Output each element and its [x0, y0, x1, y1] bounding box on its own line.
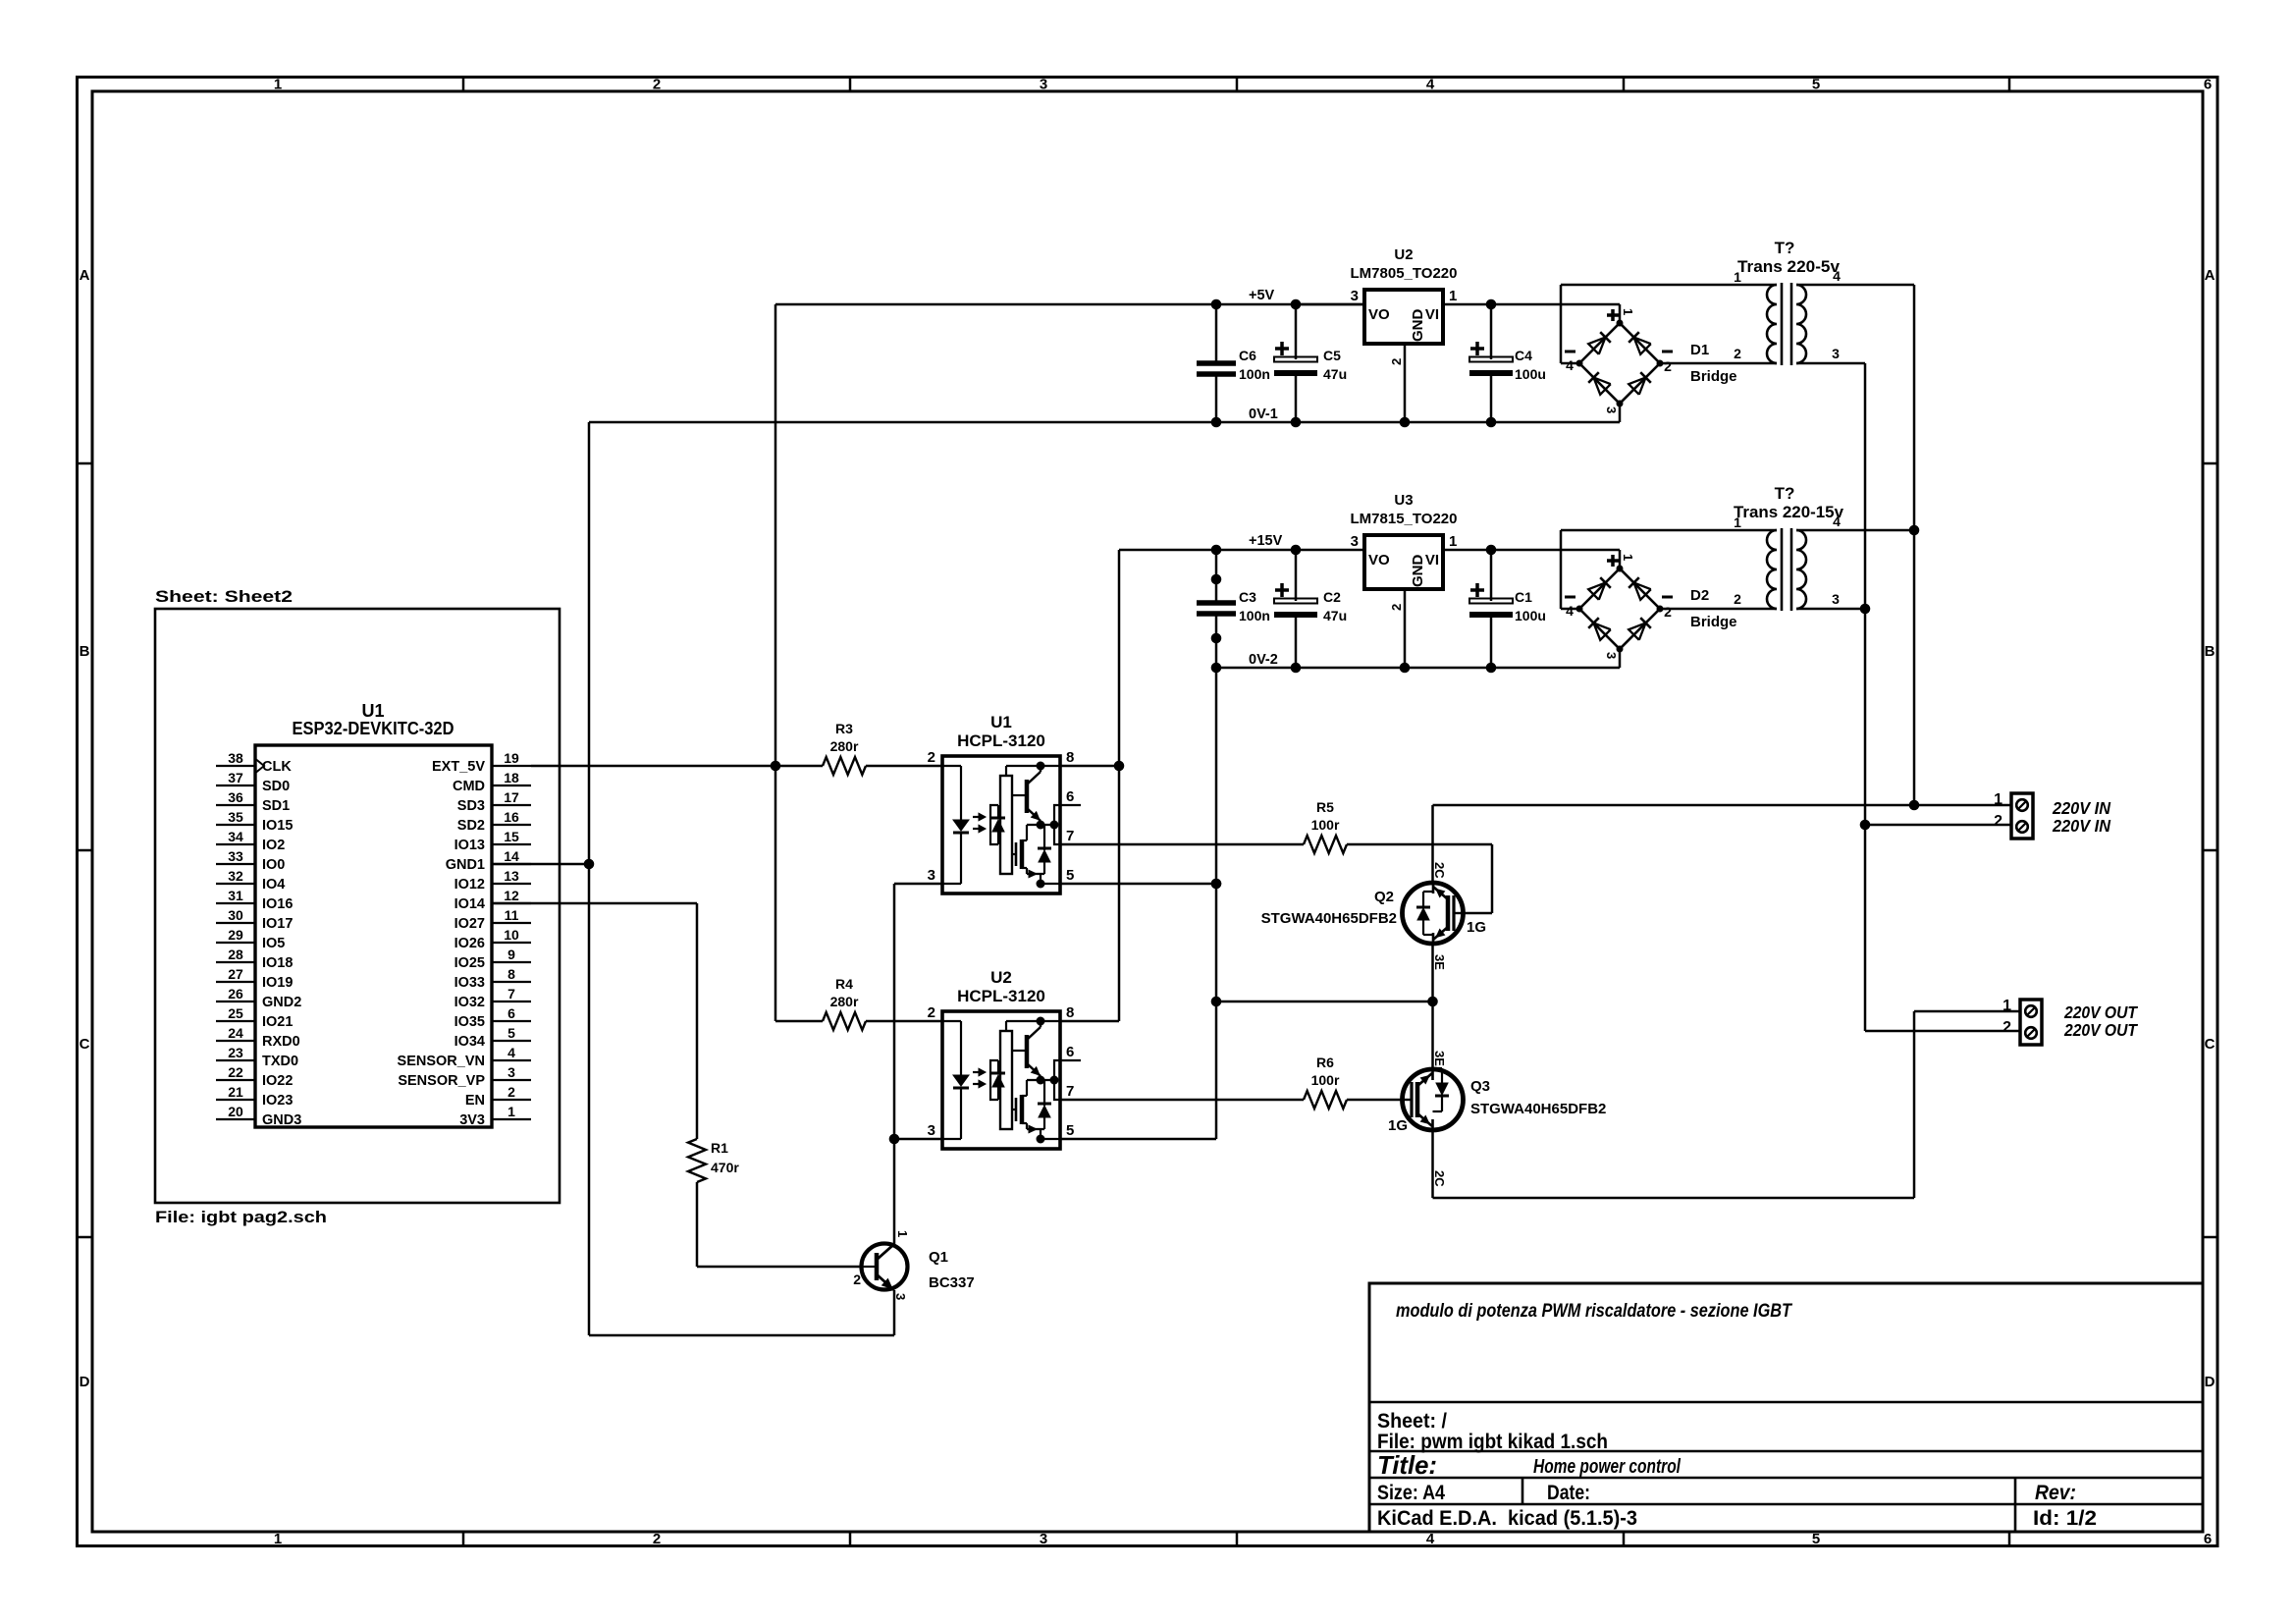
- transistor Q1 collector pin wire from HCPL pin3 net: [893, 884, 896, 1244]
- U1 internal mosfet channel: [1020, 839, 1025, 869]
- U1 ESP32 pin 24 RXD0: [216, 1040, 255, 1042]
- U1 ESP32 pin 7 IO32: [492, 1001, 531, 1002]
- svg-text:Q2: Q2: [1374, 889, 1394, 905]
- wire EXT_5V pin19 to junction: [531, 765, 775, 768]
- svg-text:5: 5: [1066, 1122, 1074, 1139]
- svg-text:31: 31: [228, 888, 243, 903]
- wire AC1 top run to T2 pin1: [1561, 529, 1777, 532]
- resistor R5 zigzag: [1304, 836, 1347, 853]
- svg-text:IO27: IO27: [454, 916, 485, 932]
- svg-text:IO35: IO35: [454, 1014, 485, 1030]
- svg-text:Trans 220-5v: Trans 220-5v: [1737, 257, 1841, 276]
- wire IO14 pin12 to R1 column: [492, 902, 697, 905]
- svg-text:IO18: IO18: [262, 955, 293, 971]
- node U1 pin5 tie: [1211, 879, 1222, 890]
- U1 internal diode: [1043, 836, 1045, 850]
- svg-text:D: D: [2205, 1374, 2216, 1390]
- wire D1 AC2 to T1 pin2: [1660, 362, 1777, 365]
- svg-text:IO19: IO19: [262, 975, 293, 991]
- U1 ESP32 pin 20 GND3: [216, 1118, 255, 1120]
- node T2 pin4 junction: [1909, 525, 1920, 536]
- svg-text:GND3: GND3: [262, 1112, 301, 1128]
- svg-text:6: 6: [507, 1005, 515, 1021]
- wire GND1 pin14 to vertical: [492, 863, 589, 866]
- U1 ESP32 pin 26 GND2: [216, 1001, 255, 1002]
- U1 photodiode bracket: [990, 805, 998, 844]
- diode bridge D1 corner dots: [1617, 320, 1624, 327]
- svg-text:13: 13: [504, 868, 519, 884]
- diode bridge D1 diode AC1-plus: [1588, 337, 1605, 353]
- U1 ESP32 pin 8 IO33: [492, 981, 531, 983]
- svg-text:SD3: SD3: [457, 798, 485, 814]
- U2 internal LED: [953, 1075, 969, 1086]
- node +5V C5 junction: [1291, 299, 1302, 310]
- svg-text:23: 23: [228, 1045, 243, 1060]
- node C3 top pin junction: [1211, 574, 1222, 585]
- border row ticks right: [2203, 462, 2217, 465]
- svg-text:3E: 3E: [1432, 1051, 1447, 1066]
- svg-text:28: 28: [228, 947, 243, 962]
- svg-text:37: 37: [228, 770, 243, 785]
- capacitor C6 top lead: [1215, 304, 1218, 363]
- transformer T1 secondary winding: [1796, 285, 1806, 363]
- node 220V IN pin1 junction: [1909, 800, 1920, 811]
- svg-text:4: 4: [1426, 1531, 1435, 1547]
- svg-text:IO21: IO21: [262, 1014, 293, 1030]
- U1 internal LED: [953, 820, 969, 831]
- transformer T2 secondary winding: [1796, 530, 1806, 609]
- U1 ESP32 pin 32 IO4: [216, 883, 255, 885]
- diode bridge D1 diode AC2-plus: [1633, 337, 1650, 353]
- svg-text:TXD0: TXD0: [262, 1054, 298, 1069]
- wire U1 opto pin 8 to +5V drop: [1060, 765, 1119, 768]
- svg-text:RXD0: RXD0: [262, 1034, 300, 1050]
- transformer T2 primary winding: [1767, 530, 1777, 609]
- svg-text:2: 2: [507, 1084, 515, 1100]
- U1 internal npn collector: [1027, 772, 1041, 785]
- svg-text:LM7805_TO220: LM7805_TO220: [1351, 265, 1458, 282]
- svg-text:IO17: IO17: [262, 916, 293, 932]
- svg-text:3: 3: [1604, 652, 1619, 659]
- U2 internal output link: [1027, 1079, 1054, 1081]
- svg-text:SD0: SD0: [262, 779, 290, 794]
- svg-text:+15V: +15V: [1249, 533, 1283, 549]
- U1 ESP32 pin 33 IO0: [216, 863, 255, 865]
- U1 ESP32 pin 22 IO22: [216, 1079, 255, 1081]
- U1 output bracket to pins 6/7: [1054, 805, 1060, 844]
- wire R3 to U1 opto pin 2: [866, 765, 942, 768]
- component U1 ESP32 body: [255, 745, 492, 1127]
- capacitor C6 plates: [1197, 360, 1236, 366]
- node U1 internal vcc junction: [1037, 762, 1045, 771]
- svg-text:17: 17: [504, 789, 519, 805]
- svg-text:STGWA40H65DFB2: STGWA40H65DFB2: [1470, 1101, 1606, 1117]
- transistor Q3 collector wire: [1431, 1130, 1434, 1198]
- svg-text:VI: VI: [1425, 306, 1439, 323]
- capacitor C4 top lead: [1490, 304, 1493, 359]
- svg-text:1: 1: [1994, 791, 2002, 808]
- U2 internal LED anode lead: [942, 1020, 961, 1022]
- svg-text:SD1: SD1: [262, 798, 290, 814]
- svg-text:12: 12: [504, 888, 519, 903]
- svg-text:Size: A4: Size: A4: [1377, 1482, 1445, 1504]
- svg-text:KiCad E.D.A. kicad (5.1.5)-3: KiCad E.D.A. kicad (5.1.5)-3: [1377, 1507, 1637, 1530]
- transistor Q1 collector diagonal: [877, 1244, 894, 1260]
- svg-text:1: 1: [507, 1104, 515, 1119]
- svg-text:470r: 470r: [711, 1160, 739, 1175]
- transistor Q2 gate lead: [1454, 912, 1464, 914]
- svg-text:ESP32-DEVKITC-32D: ESP32-DEVKITC-32D: [293, 719, 454, 738]
- node midpoint right junction: [1427, 997, 1438, 1007]
- svg-text:25: 25: [228, 1005, 243, 1021]
- wire C3 column through 0V-2: [1215, 668, 1218, 1001]
- wire bottom run riser to 220V OUT pin1: [1913, 1011, 1916, 1198]
- node U2 output bracket junction: [1050, 1076, 1059, 1085]
- svg-text:1: 1: [1621, 308, 1635, 315]
- U1 light arrows: [973, 816, 984, 818]
- svg-text:GND: GND: [1410, 555, 1426, 588]
- wire R4 to U2 opto pin 2: [866, 1020, 942, 1023]
- svg-text:C1: C1: [1515, 589, 1532, 605]
- svg-text:280r: 280r: [830, 994, 859, 1009]
- resistor R6 zigzag: [1304, 1091, 1347, 1109]
- wire neutral drop x=1900: [1864, 363, 1867, 1031]
- svg-text:2: 2: [928, 749, 935, 766]
- border column ticks bottom: [462, 1532, 465, 1546]
- svg-text:4: 4: [1833, 514, 1841, 529]
- transistor Q3 channel bar: [1415, 1082, 1420, 1117]
- svg-text:GND1: GND1: [446, 857, 485, 873]
- wire D1 AC1 loop: [1560, 285, 1563, 363]
- node C3 bottom pin junction: [1211, 633, 1222, 644]
- svg-text:Q3: Q3: [1470, 1078, 1490, 1095]
- diode bridge D2 diode minus-AC2: [1629, 623, 1645, 639]
- svg-text:11: 11: [505, 907, 519, 923]
- transistor Q2 collector diagonal: [1433, 887, 1448, 899]
- svg-text:B: B: [80, 643, 90, 660]
- capacitor C1 top lead: [1490, 550, 1493, 601]
- svg-text:IO12: IO12: [454, 877, 485, 893]
- svg-text:C: C: [80, 1036, 90, 1053]
- wire 0V-2 rail: [1216, 667, 1620, 670]
- svg-text:3: 3: [893, 1293, 908, 1300]
- wire AC feed drop x=1950: [1913, 285, 1916, 805]
- svg-text:C4: C4: [1515, 348, 1532, 363]
- diode bridge D1 diode minus-AC1: [1593, 377, 1610, 394]
- title block outline: [1369, 1283, 2203, 1532]
- U1 ESP32 pin 9 IO25: [492, 961, 531, 963]
- node 0V-1 C6 junction: [1211, 417, 1222, 428]
- svg-text:IO2: IO2: [262, 838, 285, 853]
- svg-text:2: 2: [1734, 346, 1741, 361]
- diode bridge D1 diode minus-AC2: [1629, 377, 1645, 394]
- svg-text:2: 2: [853, 1272, 861, 1287]
- capacitor C5 plates: [1274, 357, 1317, 362]
- resistor R4 zigzag: [823, 1012, 866, 1030]
- transistor Q3 internal diode: [1433, 1067, 1443, 1069]
- transistor Q1 base bar: [875, 1253, 880, 1280]
- U2 pin 6 stub: [1060, 1059, 1081, 1061]
- U1 ESP32 pin 6 IO35: [492, 1020, 531, 1022]
- wire T1 pin3 to neutral drop: [1796, 362, 1865, 365]
- svg-text:1: 1: [1449, 288, 1457, 304]
- U1 ESP32 pin 28 IO18: [216, 961, 255, 963]
- node 0V-1 C4 junction: [1486, 417, 1497, 428]
- svg-text:2C: 2C: [1432, 862, 1447, 879]
- capacitor C2 top lead: [1295, 550, 1298, 601]
- U1 photodiode: [997, 805, 999, 819]
- U1 HCPL-3120 body: [942, 756, 1060, 893]
- U1 ESP32 pin 30 IO17: [216, 922, 255, 924]
- svg-text:3: 3: [1040, 77, 1047, 93]
- regulator U3 GND pin wire: [1404, 589, 1407, 668]
- svg-text:U1: U1: [361, 701, 384, 721]
- svg-text:LM7815_TO220: LM7815_TO220: [1351, 511, 1458, 527]
- svg-text:2: 2: [1664, 604, 1672, 620]
- wire riser to R4: [775, 1020, 823, 1023]
- node midpoint left junction: [1211, 997, 1222, 1007]
- svg-text:6: 6: [2204, 1531, 2212, 1547]
- transistor Q1 emitter diagonal: [877, 1274, 894, 1290]
- svg-text:R5: R5: [1316, 799, 1334, 815]
- title block rev divider: [2014, 1478, 2017, 1532]
- svg-text:1G: 1G: [1467, 919, 1486, 936]
- regulator U3 LM7815 body: [1364, 535, 1443, 589]
- transistor Q3 collector diagonal: [1417, 1113, 1432, 1126]
- wire +5V riser x=790: [774, 304, 777, 766]
- transformer T1 core: [1781, 283, 1784, 365]
- transformer T2 core: [1781, 528, 1784, 611]
- wire R1 top lead: [696, 903, 699, 1139]
- U2 internal mosfet source: [1022, 1122, 1027, 1124]
- svg-text:Sheet: Sheet2: Sheet: Sheet2: [155, 587, 293, 606]
- svg-text:R1: R1: [711, 1140, 728, 1156]
- U1 pin 6 stub: [1060, 804, 1081, 806]
- U1 internal mosfet drain: [1022, 839, 1027, 841]
- transistor Q2 collector wire: [1431, 805, 1434, 883]
- svg-text:IO32: IO32: [454, 995, 485, 1010]
- wire T2 pin3 to neutral drop: [1796, 608, 1865, 611]
- svg-text:3: 3: [1040, 1531, 1047, 1547]
- U1 internal bottom rail: [1027, 873, 1044, 875]
- transformer T1 primary winding: [1767, 285, 1777, 363]
- wire R1 to Q1 base: [697, 1266, 862, 1269]
- transistor Q3 gate lead: [1402, 1099, 1412, 1101]
- transistor Q1 emitter pin: [893, 1290, 896, 1335]
- svg-text:2: 2: [1664, 358, 1672, 374]
- U1 ESP32 pin 19 EXT_5V: [492, 765, 531, 767]
- svg-text:3V3: 3V3: [459, 1112, 485, 1128]
- wire T2 pin4 to AC feed: [1796, 529, 1914, 532]
- capacitor C3 top lead: [1215, 550, 1218, 603]
- capacitor C2 plates: [1274, 599, 1317, 604]
- wire U3 VI to bridge plus: [1443, 549, 1620, 552]
- svg-text:1: 1: [2002, 998, 2011, 1014]
- U2 internal npn base bar: [1025, 1035, 1030, 1068]
- diode bridge D1 minus label right: [1662, 351, 1673, 353]
- U2 internal mosfet channel: [1020, 1095, 1025, 1124]
- svg-text:Bridge: Bridge: [1690, 614, 1737, 630]
- svg-text:IO14: IO14: [454, 896, 485, 912]
- svg-text:2: 2: [1994, 813, 2002, 830]
- svg-text:IO25: IO25: [454, 955, 485, 971]
- diode bridge D2 diode AC2-plus: [1633, 582, 1650, 599]
- node +5V C4 junction: [1486, 299, 1497, 310]
- U1 internal npn base bar: [1025, 780, 1030, 813]
- svg-text:3: 3: [1604, 406, 1619, 413]
- transistor Q3 emitter diagonal: [1417, 1073, 1432, 1086]
- svg-text:U1: U1: [990, 713, 1012, 731]
- svg-text:3E: 3E: [1432, 954, 1447, 970]
- diode bridge D2 corner dots: [1617, 566, 1624, 572]
- node 0V-2 C2 junction: [1291, 663, 1302, 674]
- capacitor C6 bottom lead: [1215, 374, 1218, 422]
- connector J1 220V IN body: [2011, 793, 2033, 839]
- svg-text:Home power control: Home power control: [1533, 1456, 1681, 1478]
- wire x=600 down to bottom return: [588, 864, 591, 1335]
- wire +5V drop to U2 opto pin 8: [1060, 1020, 1119, 1023]
- U1 internal mosfet source: [1022, 867, 1027, 869]
- node EXT_5V junction: [771, 761, 781, 772]
- wire riser x=790 down to R4 row: [774, 766, 777, 1021]
- svg-text:7: 7: [1066, 1083, 1074, 1100]
- svg-text:8: 8: [1066, 749, 1074, 766]
- node U1 internal output junction: [1037, 821, 1045, 830]
- wire +15V drop x=1140: [1118, 550, 1121, 1021]
- svg-text:IO13: IO13: [454, 838, 485, 853]
- svg-text:1: 1: [1449, 533, 1457, 550]
- svg-text:T?: T?: [1775, 484, 1795, 503]
- title block size/date divider: [1522, 1478, 1524, 1504]
- svg-text:3: 3: [928, 1122, 935, 1139]
- U2 internal diode: [1043, 1091, 1045, 1106]
- svg-text:HCPL-3120: HCPL-3120: [957, 731, 1045, 750]
- svg-text:1: 1: [1734, 514, 1741, 530]
- transistor Q2 emitter diagonal: [1433, 927, 1448, 940]
- diode bridge D1 minus label left: [1565, 351, 1575, 353]
- svg-text:2: 2: [1389, 358, 1404, 365]
- svg-text:R4: R4: [835, 976, 853, 992]
- svg-text:IO15: IO15: [262, 818, 293, 834]
- wire U2 opto pin 3 lead: [894, 1138, 942, 1141]
- svg-text:7: 7: [1066, 828, 1074, 844]
- wire R6 to Q3 gate: [1347, 1099, 1402, 1102]
- svg-text:D1: D1: [1690, 342, 1709, 358]
- capacitor C3 plates: [1197, 600, 1236, 606]
- svg-text:2: 2: [1734, 591, 1741, 607]
- svg-text:Q1: Q1: [929, 1249, 948, 1266]
- transistor Q3 body circle: [1403, 1069, 1464, 1130]
- diode bridge D1 outline: [1579, 323, 1660, 404]
- svg-text:10: 10: [504, 927, 519, 943]
- transistor Q2 gate bar: [1452, 895, 1455, 931]
- svg-text:26: 26: [228, 986, 243, 1001]
- node U1 output bracket junction: [1050, 821, 1059, 830]
- wire neutral branch to 220V OUT pin2: [1865, 1030, 2020, 1033]
- capacitor C5 plus sign: [1275, 347, 1289, 351]
- U1 ESP32 pin 23 TXD0: [216, 1059, 255, 1061]
- capacitor C2 plus sign: [1275, 588, 1289, 592]
- U1 ESP32 pin 1 3V3: [492, 1118, 531, 1120]
- wire 0V-1 rail: [589, 421, 1620, 424]
- border column ticks top: [462, 78, 465, 92]
- transistor Q2 internal diode: [1423, 891, 1433, 893]
- U2 output bracket to pins 6/7: [1054, 1060, 1060, 1100]
- svg-text:EXT_5V: EXT_5V: [432, 759, 485, 775]
- svg-text:6: 6: [2204, 77, 2212, 93]
- svg-text:100u: 100u: [1515, 608, 1546, 623]
- U1 ESP32 pin 5 IO34: [492, 1040, 531, 1042]
- U1 ESP32 pin 13 IO12: [492, 883, 531, 885]
- wire C5 to U2 VO: [1296, 303, 1364, 306]
- U1 ESP32 pin 35 IO15: [216, 824, 255, 826]
- capacitor C1 plates: [1469, 599, 1513, 604]
- U2 internal mosfet drain: [1022, 1095, 1027, 1097]
- U1 internal buffer bar: [1000, 776, 1012, 874]
- node 0V-2 C3 junction: [1211, 663, 1222, 674]
- svg-text:modulo di potenza PWM riscalda: modulo di potenza PWM riscaldatore - sez…: [1396, 1301, 1792, 1322]
- svg-text:Id: 1/2: Id: 1/2: [2033, 1507, 2097, 1530]
- regulator U2 LM7805 body: [1364, 290, 1443, 344]
- transistor Q2 body circle: [1403, 883, 1464, 944]
- svg-text:19: 19: [504, 750, 519, 766]
- U1 ESP32 pin 17 SD3: [492, 804, 531, 806]
- wire C3 column to U2 pin5 corner: [1215, 1001, 1218, 1139]
- resistor R1 zigzag: [688, 1139, 706, 1182]
- svg-text:14: 14: [504, 848, 519, 864]
- svg-text:U2: U2: [1394, 246, 1413, 263]
- transistor Q3 emitter wire: [1431, 1001, 1434, 1069]
- wire IGBT midpoint rail: [1216, 1001, 1433, 1003]
- svg-text:1: 1: [1734, 269, 1741, 285]
- node +15V C1 junction: [1486, 545, 1497, 556]
- U2 internal vee lead: [1040, 1129, 1041, 1139]
- svg-text:32: 32: [228, 868, 243, 884]
- svg-text:2: 2: [2002, 1019, 2011, 1036]
- wire U2 opto pin 5 lead: [1060, 1138, 1216, 1141]
- svg-text:Title:: Title:: [1377, 1450, 1437, 1480]
- node 0V-2 U3 GND junction: [1400, 663, 1411, 674]
- wire R1 bottom lead: [696, 1182, 699, 1267]
- diode bridge D2 minus label left: [1565, 596, 1575, 599]
- node +5V C6 junction: [1211, 299, 1222, 310]
- svg-text:38: 38: [228, 750, 243, 766]
- svg-text:U2: U2: [990, 968, 1012, 987]
- svg-text:100n: 100n: [1239, 366, 1270, 382]
- svg-text:16: 16: [504, 809, 519, 825]
- svg-text:4: 4: [1833, 268, 1841, 284]
- node U1 pin8 junction: [1114, 761, 1125, 772]
- U1 ESP32 pin 12 IO14: [492, 902, 531, 904]
- node U2 vee junction: [1037, 1135, 1045, 1144]
- U1 internal vcc rail: [1005, 766, 1007, 776]
- svg-text:3: 3: [1351, 288, 1359, 304]
- capacitor C4 plus sign: [1470, 347, 1484, 351]
- capacitor C5 bottom lead: [1295, 373, 1298, 422]
- wire 0V-1 left riser x=600: [588, 422, 591, 864]
- svg-text:1: 1: [895, 1230, 910, 1237]
- node T2 pin3 junction: [1860, 604, 1871, 615]
- wire D1 bottom to 0V-1: [1619, 404, 1622, 422]
- U2 internal npn collector: [1027, 1027, 1041, 1040]
- svg-text:C2: C2: [1323, 589, 1341, 605]
- svg-text:A: A: [80, 267, 90, 284]
- node U2 internal vcc junction: [1037, 1017, 1045, 1026]
- diode bridge D2 diode minus-AC1: [1593, 623, 1610, 639]
- svg-text:IO22: IO22: [262, 1073, 293, 1089]
- svg-text:SENSOR_VN: SENSOR_VN: [398, 1054, 485, 1069]
- wire +15V rail: [1119, 549, 1364, 552]
